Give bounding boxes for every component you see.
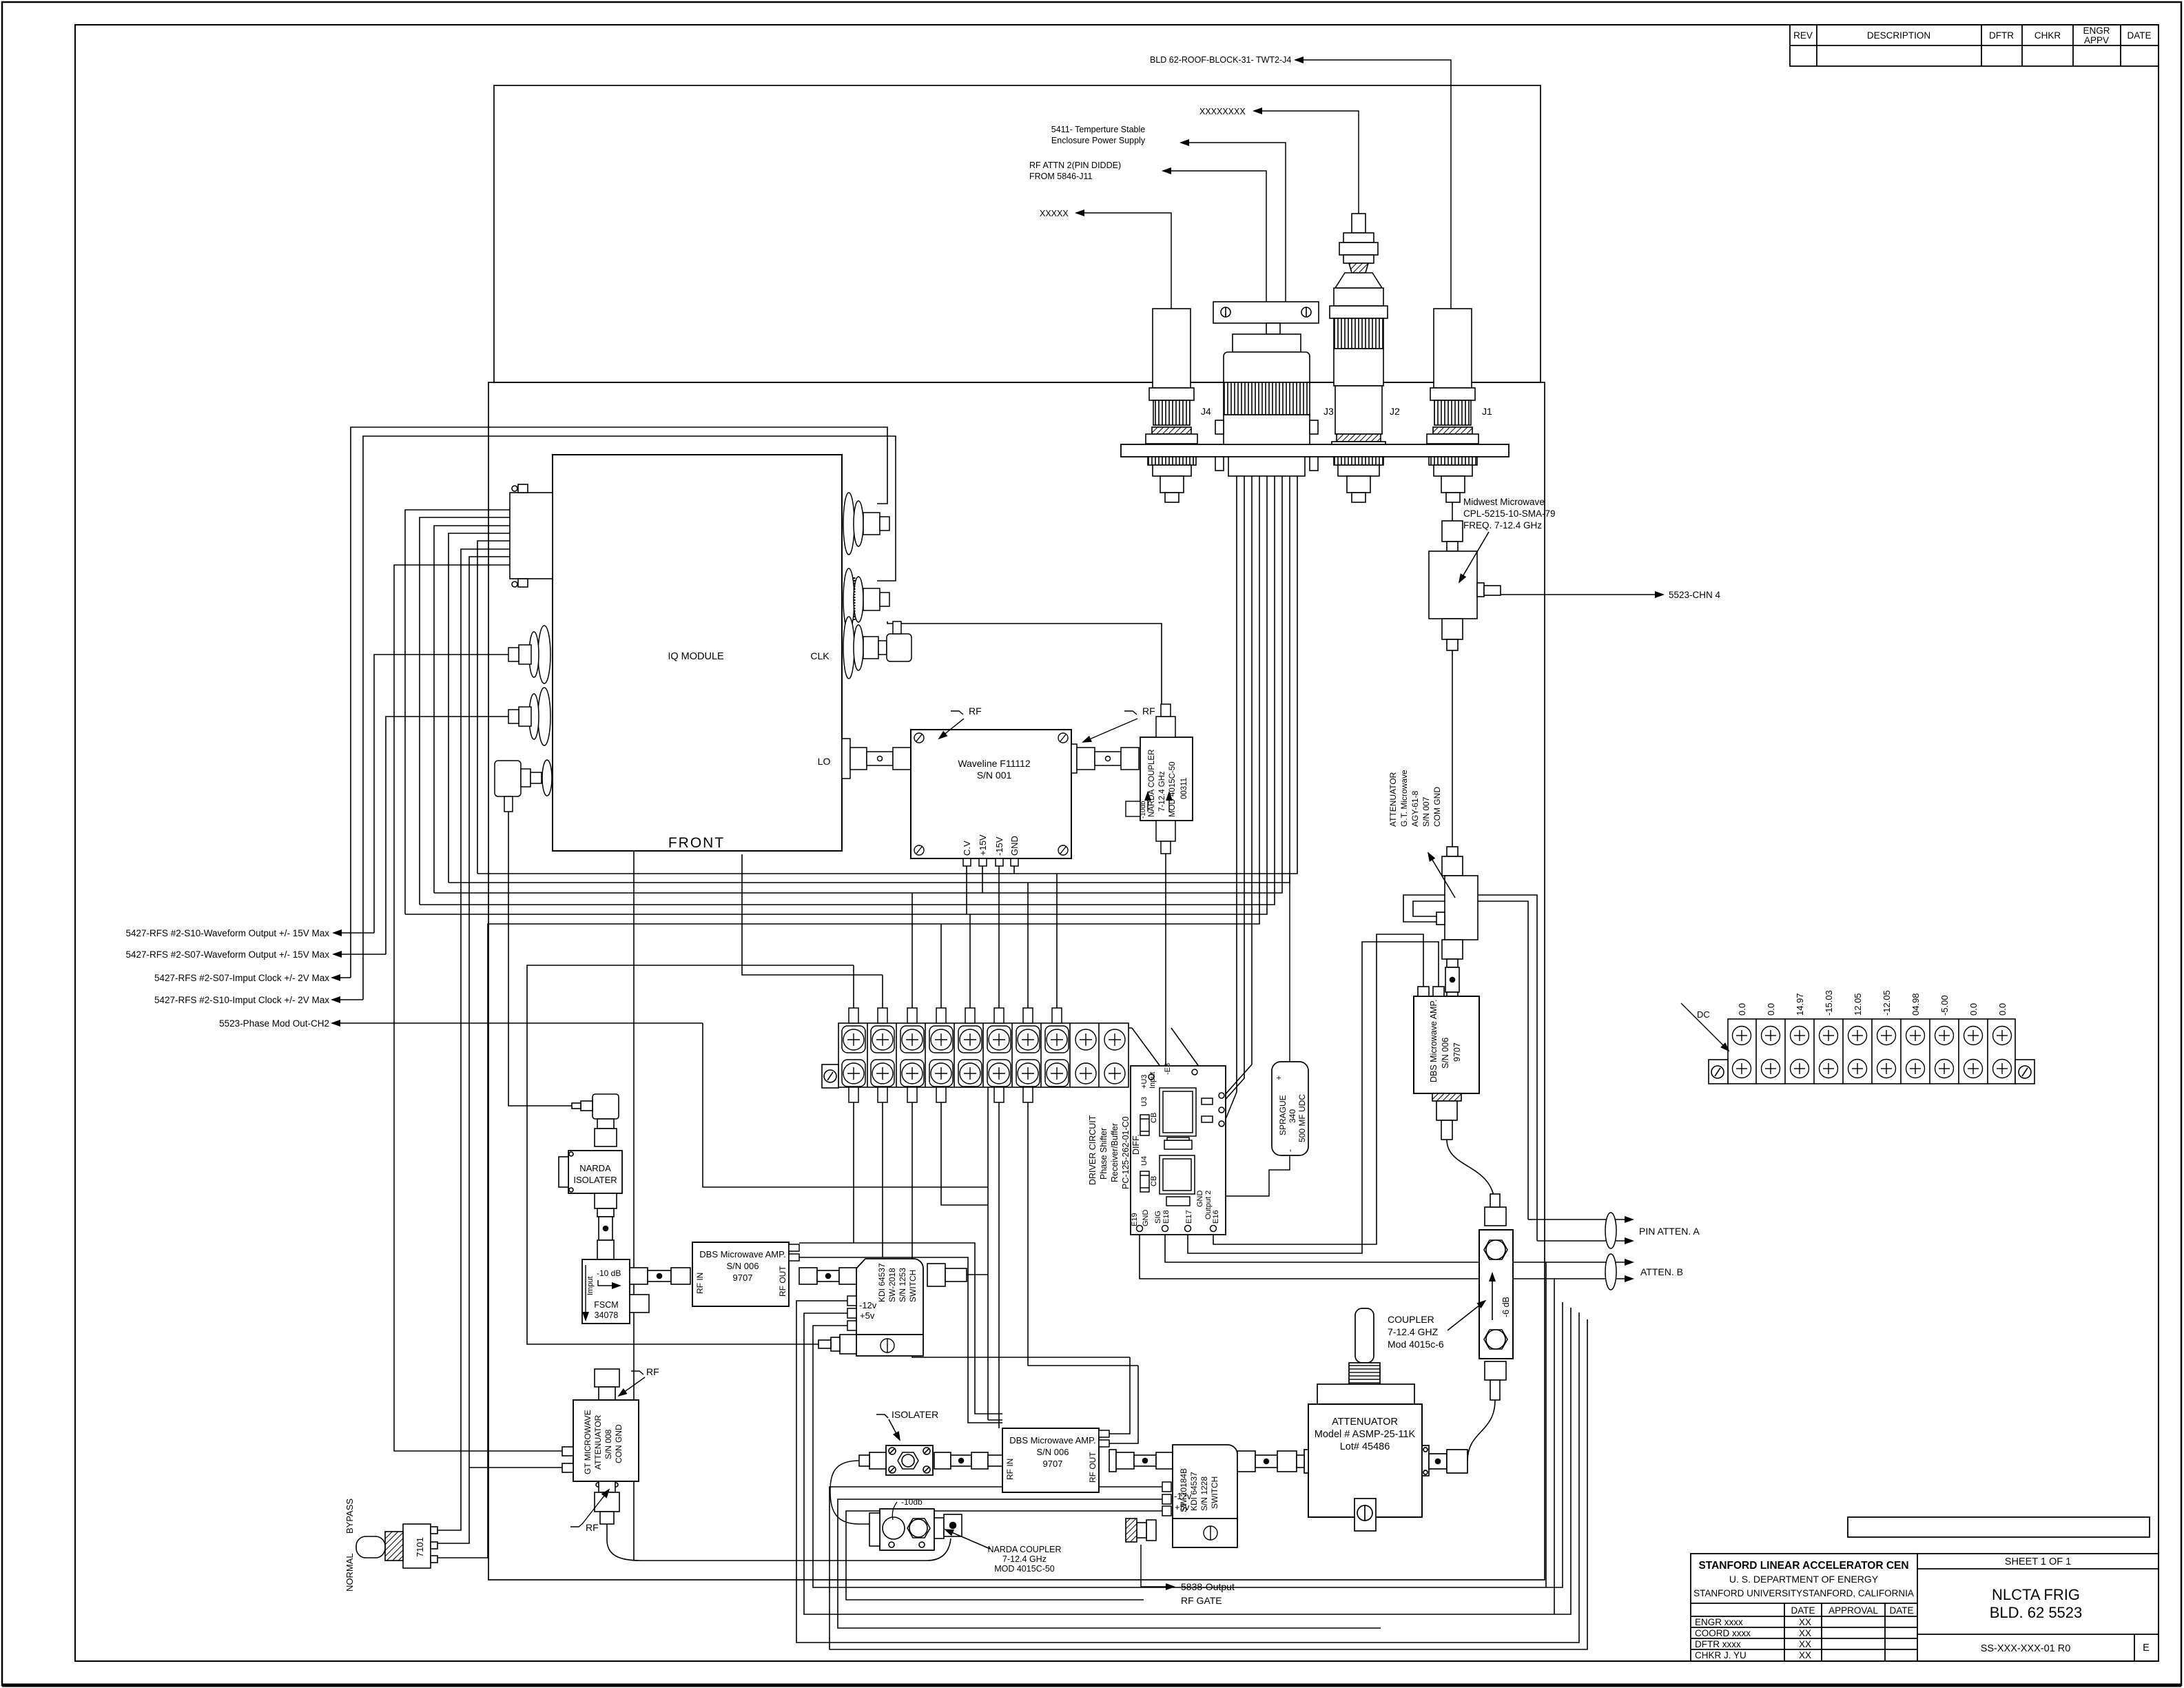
svg-text:9707: 9707 bbox=[1043, 1459, 1063, 1469]
svg-text:E18: E18 bbox=[1162, 1210, 1171, 1224]
svg-text:G.T. Microwave: G.T. Microwave bbox=[1399, 770, 1409, 827]
svg-text:RF: RF bbox=[1142, 706, 1155, 717]
svg-text:U. S. DEPARTMENT OF ENERGY: U. S. DEPARTMENT OF ENERGY bbox=[1729, 1574, 1879, 1585]
svg-text:0.0: 0.0 bbox=[1766, 1003, 1776, 1016]
svg-text:SS-XXX-XXX-01 R0: SS-XXX-XXX-01 R0 bbox=[1981, 1643, 2071, 1654]
svg-text:PC-125-262-01-C0: PC-125-262-01-C0 bbox=[1121, 1116, 1131, 1189]
svg-text:SWITCH: SWITCH bbox=[908, 1270, 918, 1302]
svg-text:-15V: -15V bbox=[994, 836, 1005, 856]
svg-text:NLCTA FRIG: NLCTA FRIG bbox=[1992, 1586, 2080, 1603]
svg-text:S/N 001: S/N 001 bbox=[977, 770, 1012, 781]
svg-text:5427-RFS #2-S07-Imput Clock +/: 5427-RFS #2-S07-Imput Clock +/- 2V Max bbox=[154, 973, 329, 983]
svg-text:XX: XX bbox=[1799, 1628, 1811, 1638]
svg-text:DBS Microwave AMP.: DBS Microwave AMP. bbox=[699, 1249, 785, 1259]
svg-text:PIN ATTEN. A: PIN ATTEN. A bbox=[1639, 1226, 1700, 1237]
svg-text:NARDA COUPLER: NARDA COUPLER bbox=[988, 1545, 1062, 1554]
svg-text:FREQ. 7-12.4 GHz: FREQ. 7-12.4 GHz bbox=[1463, 520, 1542, 531]
svg-text:Enclosure Power Supply: Enclosure Power Supply bbox=[1051, 136, 1146, 145]
svg-text:S/N 006: S/N 006 bbox=[1037, 1447, 1069, 1457]
svg-text:E: E bbox=[2143, 1643, 2150, 1654]
svg-text:+15V: +15V bbox=[978, 834, 988, 856]
svg-text:J1: J1 bbox=[1482, 406, 1492, 417]
svg-text:SWITCH: SWITCH bbox=[1210, 1476, 1219, 1509]
svg-text:APPROVAL: APPROVAL bbox=[1828, 1605, 1878, 1616]
svg-text:DIFF.: DIFF. bbox=[1131, 1134, 1141, 1155]
svg-text:7-12.4 GHZ: 7-12.4 GHZ bbox=[1388, 1326, 1439, 1337]
svg-text:5427-RFS #2-S10-Waveform Outpu: 5427-RFS #2-S10-Waveform Output +/- 15V … bbox=[126, 928, 330, 938]
svg-text:GND: GND bbox=[1009, 836, 1020, 856]
svg-text:34078: 34078 bbox=[595, 1310, 619, 1320]
svg-text:00311: 00311 bbox=[1180, 778, 1188, 799]
svg-text:KDI 64537: KDI 64537 bbox=[877, 1263, 887, 1302]
svg-text:DBS Microwave AMP.: DBS Microwave AMP. bbox=[1009, 1435, 1095, 1445]
svg-text:STANFORD LINEAR ACCELERATOR CE: STANFORD LINEAR ACCELERATOR CEN bbox=[1698, 1560, 1908, 1572]
svg-text:NARDA: NARDA bbox=[579, 1163, 611, 1173]
svg-text:BYPASS: BYPASS bbox=[344, 1499, 355, 1534]
svg-text:Lot# 45486: Lot# 45486 bbox=[1340, 1441, 1390, 1452]
svg-text:-5.00: -5.00 bbox=[1939, 995, 1950, 1016]
svg-text:DBS Microwave AMP.: DBS Microwave AMP. bbox=[1429, 999, 1439, 1082]
svg-text:XX: XX bbox=[1799, 1639, 1811, 1649]
svg-text:U4: U4 bbox=[1140, 1156, 1148, 1166]
svg-text:COM GND: COM GND bbox=[1432, 787, 1442, 827]
svg-text:-12.05: -12.05 bbox=[1882, 990, 1892, 1016]
svg-text:DFTR: DFTR bbox=[1989, 30, 2014, 41]
svg-text:5427-RFS #2-S07-Waveform Outpu: 5427-RFS #2-S07-Waveform Output +/- 15V … bbox=[126, 949, 330, 960]
svg-text:RF: RF bbox=[969, 706, 982, 717]
svg-text:DC: DC bbox=[1697, 1009, 1710, 1020]
svg-text:-12v: -12v bbox=[1174, 1491, 1192, 1501]
svg-text:CHKR J. YU: CHKR J. YU bbox=[1695, 1650, 1747, 1660]
svg-text:S/N 006: S/N 006 bbox=[727, 1261, 759, 1271]
svg-text:ENGR xxxx: ENGR xxxx bbox=[1695, 1617, 1743, 1627]
svg-text:RF ATTN 2(PIN DIDDE): RF ATTN 2(PIN DIDDE) bbox=[1029, 161, 1121, 170]
svg-text:+U3: +U3 bbox=[1140, 1075, 1148, 1089]
svg-text:ISOLATER: ISOLATER bbox=[573, 1175, 617, 1185]
svg-text:LO: LO bbox=[818, 756, 831, 767]
svg-text:DATE: DATE bbox=[1889, 1605, 1913, 1616]
svg-text:+5v: +5v bbox=[860, 1310, 875, 1321]
svg-text:MOD 4015C-50: MOD 4015C-50 bbox=[994, 1564, 1055, 1574]
svg-text:C.V: C.V bbox=[962, 841, 972, 856]
svg-text:9707: 9707 bbox=[733, 1273, 753, 1283]
svg-text:RF OUT: RF OUT bbox=[1088, 1452, 1098, 1483]
svg-text:CHKR: CHKR bbox=[2034, 30, 2061, 41]
svg-text:S/N 007: S/N 007 bbox=[1421, 796, 1431, 827]
svg-text:S/N 1228: S/N 1228 bbox=[1199, 1476, 1209, 1511]
svg-text:FSCM: FSCM bbox=[594, 1300, 618, 1310]
svg-text:DATE: DATE bbox=[2127, 30, 2151, 41]
svg-text:U3: U3 bbox=[1140, 1097, 1148, 1107]
svg-text:CB: CB bbox=[1150, 1176, 1158, 1186]
svg-text:340: 340 bbox=[1288, 1109, 1297, 1123]
svg-text:ATTEN. B: ATTEN. B bbox=[1640, 1266, 1683, 1277]
svg-text:SHEET 1 OF 1: SHEET 1 OF 1 bbox=[2005, 1556, 2071, 1567]
svg-text:J2: J2 bbox=[1390, 406, 1400, 417]
svg-text:CON GND: CON GND bbox=[614, 1424, 624, 1463]
svg-text:E19: E19 bbox=[1131, 1213, 1139, 1226]
svg-text:RF GATE: RF GATE bbox=[1181, 1595, 1222, 1606]
svg-text:COORD xxxx: COORD xxxx bbox=[1695, 1628, 1751, 1638]
svg-text:NORMAL: NORMAL bbox=[344, 1553, 355, 1592]
svg-text:5523-Phase Mod Out-CH2: 5523-Phase Mod Out-CH2 bbox=[219, 1018, 329, 1029]
svg-text:E16: E16 bbox=[1212, 1210, 1220, 1224]
svg-text:5523-CHN 4: 5523-CHN 4 bbox=[1669, 590, 1721, 600]
svg-text:ENGR: ENGR bbox=[2083, 25, 2110, 36]
svg-text:RF: RF bbox=[646, 1366, 659, 1377]
svg-text:Receiver/Buffer: Receiver/Buffer bbox=[1110, 1123, 1120, 1182]
svg-text:5411- Temperture Stable: 5411- Temperture Stable bbox=[1051, 125, 1145, 134]
svg-text:ATTENUATOR: ATTENUATOR bbox=[593, 1414, 603, 1470]
svg-text:Mod 4015c-6: Mod 4015c-6 bbox=[1388, 1339, 1444, 1350]
svg-text:-10db: -10db bbox=[901, 1497, 923, 1507]
svg-text:MOD 4015C-50: MOD 4015C-50 bbox=[1168, 761, 1177, 817]
svg-text:Phase Shifter: Phase Shifter bbox=[1099, 1128, 1109, 1180]
svg-text:0.0: 0.0 bbox=[1968, 1003, 1979, 1016]
svg-text:BLD 62-ROOF-BLOCK-31- TWT2-J4: BLD 62-ROOF-BLOCK-31- TWT2-J4 bbox=[1150, 55, 1291, 65]
svg-text:STANFORD UNIVERSITYSTANFORD, C: STANFORD UNIVERSITYSTANFORD, CALIFORNIA bbox=[1693, 1588, 1914, 1598]
svg-text:12.05: 12.05 bbox=[1853, 993, 1863, 1016]
svg-text:500 MF UDC: 500 MF UDC bbox=[1297, 1094, 1307, 1142]
svg-text:CLK: CLK bbox=[810, 650, 830, 661]
svg-text:Model # ASMP-25-11K: Model # ASMP-25-11K bbox=[1315, 1429, 1416, 1440]
svg-text:+: + bbox=[1274, 1075, 1284, 1080]
svg-text:-10 dB: -10 dB bbox=[597, 1268, 621, 1278]
svg-text:Waveline F11112: Waveline F11112 bbox=[958, 758, 1031, 769]
svg-text:XXXXXXXX: XXXXXXXX bbox=[1199, 107, 1246, 116]
svg-text:ATTENUATOR: ATTENUATOR bbox=[1332, 1417, 1398, 1428]
svg-text:RF IN: RF IN bbox=[1005, 1459, 1015, 1480]
svg-text:REV: REV bbox=[1793, 30, 1813, 41]
svg-text:S/N 1253: S/N 1253 bbox=[898, 1268, 907, 1302]
svg-text:APPV: APPV bbox=[2084, 35, 2109, 45]
svg-text:S/N 008: S/N 008 bbox=[604, 1429, 613, 1459]
svg-text:E17: E17 bbox=[1185, 1210, 1193, 1224]
svg-text:XXXXX: XXXXX bbox=[1040, 209, 1069, 218]
svg-text:RF: RF bbox=[586, 1522, 599, 1533]
svg-text:+5v: +5v bbox=[1175, 1502, 1190, 1512]
svg-text:CPL-5215-10-SMA-79: CPL-5215-10-SMA-79 bbox=[1463, 508, 1556, 519]
svg-text:DATE: DATE bbox=[1791, 1605, 1815, 1616]
svg-text:XX: XX bbox=[1799, 1617, 1811, 1627]
svg-text:DFTR xxxx: DFTR xxxx bbox=[1695, 1639, 1741, 1649]
svg-text:XX: XX bbox=[1799, 1650, 1811, 1660]
svg-text:04.98: 04.98 bbox=[1910, 993, 1921, 1016]
svg-text:FROM 5846-J11: FROM 5846-J11 bbox=[1029, 172, 1093, 181]
svg-text:GND: GND bbox=[1142, 1210, 1150, 1227]
svg-text:AGY-61-8: AGY-61-8 bbox=[1410, 790, 1420, 827]
svg-text:14.97: 14.97 bbox=[1795, 993, 1805, 1016]
svg-text:IQ MODULE: IQ MODULE bbox=[668, 651, 724, 662]
svg-text:SW-2018: SW-2018 bbox=[887, 1268, 897, 1302]
svg-text:BLD. 62 5523: BLD. 62 5523 bbox=[1990, 1604, 2083, 1621]
svg-text:0.0: 0.0 bbox=[1737, 1003, 1747, 1016]
svg-text:-12v: -12v bbox=[859, 1300, 877, 1310]
svg-text:NARDA COUPLER: NARDA COUPLER bbox=[1148, 750, 1156, 817]
svg-text:-6 dB: -6 dB bbox=[1501, 1297, 1511, 1317]
svg-text:7-12.4 GHz: 7-12.4 GHz bbox=[1002, 1554, 1047, 1564]
svg-text:DESCRIPTION: DESCRIPTION bbox=[1867, 30, 1930, 41]
svg-text:-E3: -E3 bbox=[1164, 1063, 1172, 1075]
svg-text:ATTENUATOR: ATTENUATOR bbox=[1388, 772, 1398, 827]
svg-text:SIG: SIG bbox=[1154, 1211, 1162, 1224]
svg-text:Imput: Imput bbox=[586, 1276, 595, 1295]
svg-text:-: - bbox=[1285, 1149, 1295, 1152]
svg-text:GT MICROWAVE: GT MICROWAVE bbox=[583, 1410, 593, 1474]
svg-text:9707: 9707 bbox=[1452, 1042, 1462, 1062]
svg-text:7101: 7101 bbox=[415, 1537, 425, 1557]
svg-text:Midwest Microwave: Midwest Microwave bbox=[1463, 497, 1545, 507]
svg-text:S/N 006: S/N 006 bbox=[1441, 1038, 1450, 1069]
svg-text:RF OUT: RF OUT bbox=[778, 1266, 787, 1297]
svg-text:7-12.4 GHz: 7-12.4 GHz bbox=[1158, 771, 1166, 812]
svg-text:5427-RFS #2-S10-Imput Clock +/: 5427-RFS #2-S10-Imput Clock +/- 2V Max bbox=[154, 995, 329, 1005]
svg-text:RF IN: RF IN bbox=[695, 1273, 705, 1294]
svg-text:COUPLER: COUPLER bbox=[1388, 1314, 1434, 1325]
svg-text:ISOLATER: ISOLATER bbox=[892, 1409, 938, 1420]
svg-text:GND: GND bbox=[1196, 1191, 1204, 1208]
svg-text:CB: CB bbox=[1150, 1113, 1158, 1123]
svg-text:5838-Output: 5838-Output bbox=[1181, 1581, 1235, 1592]
svg-text:SPRAGUE: SPRAGUE bbox=[1278, 1095, 1288, 1135]
svg-text:DRIVER CIRCUIT: DRIVER CIRCUIT bbox=[1088, 1115, 1098, 1185]
svg-text:0.0: 0.0 bbox=[1997, 1003, 2008, 1016]
svg-text:J3: J3 bbox=[1323, 406, 1334, 417]
svg-text:J4: J4 bbox=[1201, 406, 1211, 417]
svg-text:FRONT: FRONT bbox=[668, 835, 725, 851]
svg-text:-15.03: -15.03 bbox=[1824, 990, 1834, 1016]
